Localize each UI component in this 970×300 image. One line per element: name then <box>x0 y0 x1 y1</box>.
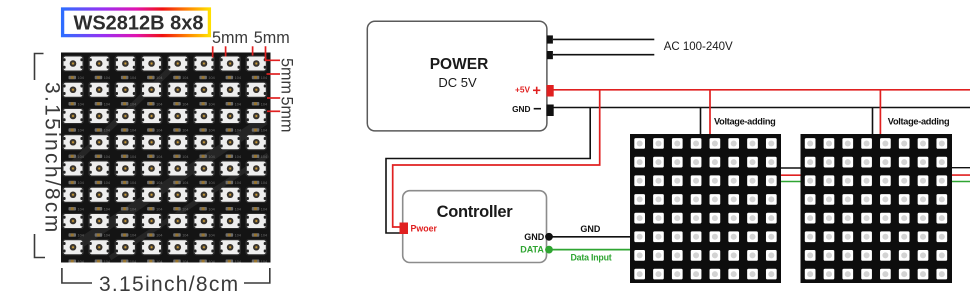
wire +5V to controller (red L) <box>393 90 600 227</box>
pin Pwoer <box>400 223 438 235</box>
dimension bracket bottom <box>62 268 270 283</box>
svg-text:Voltage-adding: Voltage-adding <box>714 117 775 127</box>
photo LED grid 8x8 <box>62 55 267 264</box>
inter-panel wire green <box>781 181 801 183</box>
svg-text:DC 5V: DC 5V <box>438 75 477 90</box>
svg-text:Pwoer: Pwoer <box>411 224 438 234</box>
svg-text:POWER: POWER <box>430 56 489 73</box>
output wire black <box>952 167 970 169</box>
dimension bracket left <box>35 54 46 258</box>
pin GND controller <box>524 232 553 242</box>
wire voltage-adding red drop 2 <box>879 90 881 134</box>
LED matrix photo PCB <box>61 53 271 263</box>
wire +5V bus (red) <box>553 89 970 91</box>
LED panel P2 <box>801 134 953 283</box>
svg-text:GND: GND <box>512 104 530 114</box>
pin GND power <box>512 104 554 116</box>
pin +5V <box>515 85 554 97</box>
svg-text:AC 100-240V: AC 100-240V <box>664 41 733 53</box>
output wire red <box>952 174 970 176</box>
wire DATA controller to panel1 (green) <box>551 250 630 263</box>
wire AC line 2 <box>553 54 654 56</box>
dimension red arrows top <box>213 46 280 60</box>
power supply box <box>367 21 547 131</box>
svg-text:GND: GND <box>524 232 545 242</box>
dimension label 3.15inch/8cm bottom <box>99 273 240 296</box>
svg-text:5mm: 5mm <box>278 97 296 133</box>
svg-text:3.15inch/8cm: 3.15inch/8cm <box>41 82 64 235</box>
svg-text:Data Input: Data Input <box>571 253 612 263</box>
wire voltage-adding black drop 1 <box>700 108 702 135</box>
svg-text:5mm: 5mm <box>254 29 290 47</box>
dimension label 5mm 5mm right (vertical) <box>278 58 296 132</box>
svg-text:5mm: 5mm <box>212 29 248 47</box>
svg-text:Controller: Controller <box>437 203 514 221</box>
wire AC line 1 <box>553 38 654 40</box>
wire GND to controller (black L) <box>386 108 590 234</box>
svg-text:5mm: 5mm <box>278 58 296 94</box>
pin AC2 <box>547 51 553 59</box>
inter-panel wire black <box>781 167 801 169</box>
wire voltage-adding red drop 1 <box>709 90 711 134</box>
dimension label 3.15inch/8cm left (vertical) <box>41 82 64 235</box>
controller box <box>403 191 547 263</box>
svg-text:DATA: DATA <box>520 245 544 255</box>
dimension label 5mm 5mm top <box>212 29 290 47</box>
wire voltage-adding black drop 2 <box>872 108 874 135</box>
pin AC1 <box>547 35 553 43</box>
svg-text:Voltage-adding: Voltage-adding <box>888 117 949 127</box>
wire GND controller to panel1 <box>551 224 630 237</box>
svg-text:3.15inch/8cm: 3.15inch/8cm <box>99 273 240 296</box>
dimension red arrows right <box>267 74 281 111</box>
output wire green <box>952 181 970 183</box>
LED panel P1 <box>630 134 781 283</box>
pin DATA <box>520 245 553 255</box>
wire GND bus (black) <box>553 107 970 109</box>
svg-text:+5V: +5V <box>515 85 530 95</box>
inter-panel wire red <box>781 174 801 176</box>
svg-text:WS2812B 8x8: WS2812B 8x8 <box>73 13 203 35</box>
title box WS2812B 8x8 <box>63 9 210 36</box>
svg-text:GND: GND <box>580 224 601 234</box>
